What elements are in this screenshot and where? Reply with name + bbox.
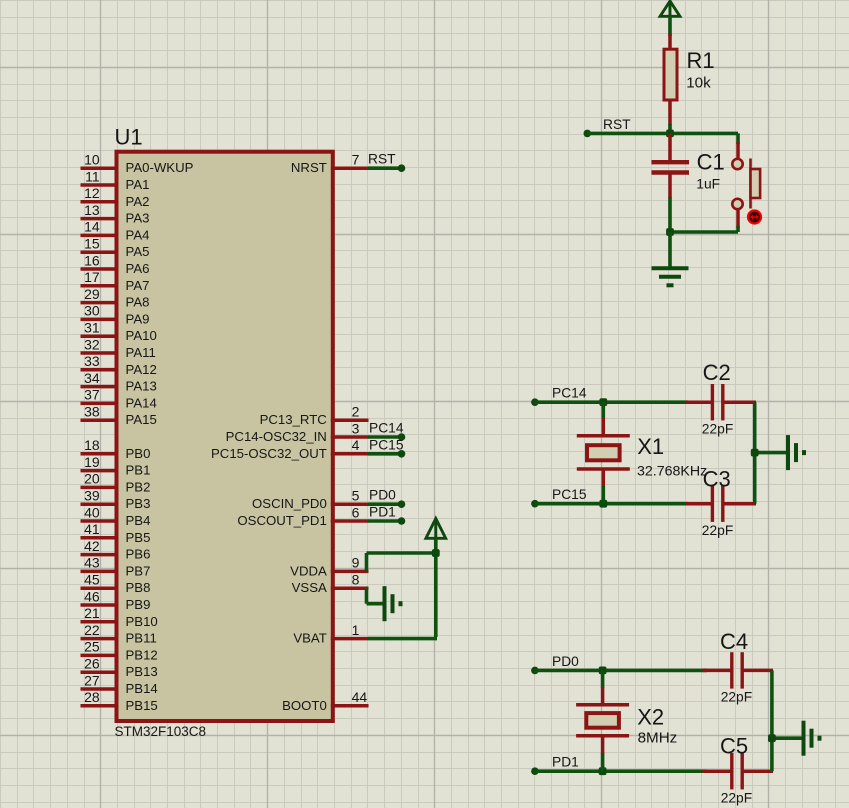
svg-text:PA0-WKUP: PA0-WKUP <box>126 160 194 175</box>
svg-text:PB14: PB14 <box>126 681 158 696</box>
svg-text:C1: C1 <box>697 149 725 174</box>
pin 19 (PB1) <box>81 454 151 478</box>
pin 1 (VBAT) <box>293 622 368 646</box>
pin 32 (PA11) <box>81 336 156 360</box>
svg-text:21: 21 <box>84 605 100 621</box>
svg-text:6: 6 <box>352 504 360 520</box>
wire PC15 horizontal <box>535 502 688 506</box>
svg-text:46: 46 <box>84 588 100 604</box>
svg-text:13: 13 <box>84 202 100 218</box>
svg-text:OSCOUT_PD1: OSCOUT_PD1 <box>237 513 326 528</box>
svg-text:PB1: PB1 <box>126 463 151 478</box>
wire R1 to RST net <box>668 124 672 133</box>
pin 40 (PB4) <box>81 504 151 528</box>
pin 44 (BOOT0) <box>282 689 368 713</box>
svg-text:PA11: PA11 <box>126 345 156 360</box>
svg-text:VDDA: VDDA <box>290 563 327 578</box>
pin 38 (PA15) <box>81 404 157 428</box>
capacitor C1 <box>652 133 690 198</box>
svg-text:PA4: PA4 <box>126 227 150 242</box>
svg-text:22pF: 22pF <box>721 791 752 806</box>
pin 2 (PC13_RTC) <box>260 404 369 428</box>
pin 6 (OSCOUT_PD1) <box>237 504 368 528</box>
svg-text:33: 33 <box>84 353 100 369</box>
svg-text:41: 41 <box>84 521 100 537</box>
pin 43 (PB7) <box>81 555 151 579</box>
svg-text:PC15: PC15 <box>369 437 404 452</box>
wire NRST pin to RST terminal <box>368 166 401 170</box>
svg-text:C5: C5 <box>720 734 748 759</box>
junction PD0/X2 <box>599 667 607 675</box>
power symbol VDD (top, above R1) <box>660 1 680 19</box>
svg-text:20: 20 <box>84 471 100 487</box>
crystal X1 <box>577 402 630 504</box>
svg-text:PB2: PB2 <box>126 479 151 494</box>
pin 41 (PB5) <box>81 521 151 545</box>
svg-text:PD1: PD1 <box>369 505 396 520</box>
node PD1 terminal at chip <box>398 517 406 525</box>
node PC15 terminal at chip <box>398 450 406 458</box>
svg-text:42: 42 <box>84 538 100 554</box>
svg-text:PA2: PA2 <box>126 194 150 209</box>
svg-text:15: 15 <box>84 236 100 252</box>
pin 37 (PA14) <box>81 387 157 411</box>
svg-text:R1: R1 <box>687 48 715 73</box>
svg-text:22pF: 22pF <box>702 523 733 538</box>
svg-text:U1: U1 <box>115 125 143 150</box>
svg-text:PC13_RTC: PC13_RTC <box>260 412 328 427</box>
svg-text:PD1: PD1 <box>552 755 579 770</box>
push button (reset) <box>732 142 760 228</box>
pin 31 (PA10) <box>81 320 157 344</box>
svg-text:PA15: PA15 <box>126 412 157 427</box>
node PC14 terminal at chip <box>398 433 406 441</box>
svg-text:34: 34 <box>84 370 100 386</box>
svg-text:1: 1 <box>352 622 360 638</box>
wire power node down <box>434 538 438 637</box>
svg-text:C3: C3 <box>703 466 731 491</box>
pin 4 (PC15-OSC32_OUT) <box>211 437 368 461</box>
wire PD1 pin to terminal <box>368 519 401 523</box>
terminal PC15 <box>531 500 539 508</box>
svg-text:C4: C4 <box>720 629 748 654</box>
pin 8 (VSSA) <box>292 572 369 596</box>
svg-text:39: 39 <box>84 488 100 504</box>
wire VSSA to ground <box>367 602 385 606</box>
wire to ground (X2) <box>772 736 803 740</box>
svg-text:VSSA: VSSA <box>292 580 327 595</box>
wire VBAT horizontal <box>368 637 437 641</box>
resistor R1 <box>664 34 677 125</box>
svg-text:NRST: NRST <box>291 160 327 175</box>
svg-text:PB5: PB5 <box>126 530 151 545</box>
svg-text:29: 29 <box>84 286 100 302</box>
pin 28 (PB15) <box>81 689 158 713</box>
svg-text:3: 3 <box>352 420 360 436</box>
svg-text:32: 32 <box>84 336 100 352</box>
pin 13 (PA3) <box>81 202 150 226</box>
svg-text:PB9: PB9 <box>126 597 151 612</box>
svg-text:PA6: PA6 <box>126 261 150 276</box>
wire to ground (X1) <box>755 451 788 455</box>
ground (VSSA) <box>385 586 401 621</box>
wire right vertical (C2-C3) <box>753 402 757 504</box>
svg-text:PA13: PA13 <box>126 379 157 394</box>
svg-text:PB15: PB15 <box>126 698 158 713</box>
svg-text:31: 31 <box>84 320 100 336</box>
pin 18 (PB0) <box>81 437 151 461</box>
svg-text:38: 38 <box>84 404 100 420</box>
svg-text:18: 18 <box>84 437 100 453</box>
terminal PD1 <box>531 767 539 775</box>
svg-text:8: 8 <box>352 572 360 588</box>
button red actuator dot <box>747 209 762 224</box>
pin 29 (PA8) <box>81 286 150 310</box>
svg-text:PB0: PB0 <box>126 446 151 461</box>
pin 15 (PA5) <box>81 236 150 260</box>
svg-text:10: 10 <box>84 152 100 168</box>
wire PD1 horizontal <box>535 769 707 773</box>
capacitor C4 <box>703 652 774 688</box>
svg-text:7: 7 <box>352 152 360 168</box>
svg-text:45: 45 <box>84 572 100 588</box>
pin 30 (PA9) <box>81 303 150 327</box>
pin 5 (OSCIN_PD0) <box>252 488 368 512</box>
pin 34 (PA13) <box>81 370 157 394</box>
svg-text:44: 44 <box>352 689 368 705</box>
ground (X2 circuit) <box>804 721 820 756</box>
svg-text:14: 14 <box>84 219 100 235</box>
svg-text:22: 22 <box>84 622 100 638</box>
wire RST horizontal <box>587 132 738 136</box>
pin 22 (PB11) <box>81 622 157 646</box>
wire down to ground <box>668 232 672 267</box>
svg-text:PB8: PB8 <box>126 580 151 595</box>
svg-text:PA5: PA5 <box>126 244 150 259</box>
junction PC15/X1 <box>599 500 607 508</box>
svg-text:10k: 10k <box>686 75 711 92</box>
svg-text:22pF: 22pF <box>702 422 733 437</box>
svg-text:43: 43 <box>84 555 100 571</box>
wire PC14 horizontal <box>535 400 688 404</box>
svg-text:PA14: PA14 <box>126 395 157 410</box>
svg-text:X1: X1 <box>637 434 664 459</box>
svg-text:9: 9 <box>352 555 360 571</box>
svg-text:C2: C2 <box>703 360 731 385</box>
pin 9 (VDDA) <box>290 555 368 579</box>
svg-text:PC14: PC14 <box>552 386 587 401</box>
svg-text:PC15: PC15 <box>552 487 587 502</box>
wire PC15 pin to terminal <box>368 452 401 456</box>
wire button down <box>736 226 740 232</box>
pin 33 (PA12) <box>81 353 157 377</box>
svg-text:PB11: PB11 <box>126 631 157 646</box>
pin 25 (PB12) <box>81 639 158 663</box>
wire bottom horizontal (button to C1 gnd) <box>670 230 738 234</box>
svg-text:PB3: PB3 <box>126 496 151 511</box>
svg-text:PB7: PB7 <box>126 563 151 578</box>
svg-text:2: 2 <box>352 404 360 420</box>
capacitor C3 <box>686 486 756 522</box>
wire VDDA up <box>365 553 369 571</box>
wire PD0 pin to terminal <box>368 502 401 506</box>
svg-text:PC14-OSC32_IN: PC14-OSC32_IN <box>226 429 327 444</box>
svg-text:PB6: PB6 <box>126 547 151 562</box>
pin 16 (PA6) <box>81 252 150 276</box>
svg-text:19: 19 <box>84 454 100 470</box>
pin 39 (PB3) <box>81 488 151 512</box>
power symbol VDD (near VDDA) <box>426 519 446 542</box>
svg-text:BOOT0: BOOT0 <box>282 698 327 713</box>
svg-text:PC15-OSC32_OUT: PC15-OSC32_OUT <box>211 446 327 461</box>
crystal X2 <box>576 670 629 771</box>
svg-text:PA12: PA12 <box>126 362 157 377</box>
node RST terminal at chip <box>398 164 406 172</box>
pin 11 (PA1) <box>81 168 150 192</box>
svg-text:27: 27 <box>84 672 100 688</box>
junction power node <box>432 549 440 557</box>
svg-text:OSCIN_PD0: OSCIN_PD0 <box>252 496 327 511</box>
svg-text:16: 16 <box>84 252 100 268</box>
svg-text:22pF: 22pF <box>721 689 752 704</box>
svg-text:PD0: PD0 <box>552 654 579 669</box>
pin 42 (PB6) <box>81 538 151 562</box>
svg-text:1uF: 1uF <box>696 176 720 191</box>
svg-text:PA7: PA7 <box>126 278 150 293</box>
junction gnd (X2) <box>768 734 776 742</box>
svg-text:PB12: PB12 <box>126 647 158 662</box>
svg-text:RST: RST <box>368 152 396 167</box>
capacitor C2 <box>686 384 756 420</box>
svg-text:PA1: PA1 <box>126 177 150 192</box>
ground (X1 circuit) <box>788 435 804 470</box>
svg-text:VBAT: VBAT <box>293 631 326 646</box>
svg-text:32.768KHz: 32.768KHz <box>637 464 707 480</box>
svg-text:30: 30 <box>84 303 100 319</box>
svg-text:X2: X2 <box>637 705 664 730</box>
terminal PD0 <box>531 667 539 675</box>
svg-text:11: 11 <box>85 168 100 184</box>
svg-text:12: 12 <box>84 185 100 201</box>
svg-text:26: 26 <box>84 656 100 672</box>
pin 27 (PB14) <box>81 672 158 696</box>
svg-text:PB13: PB13 <box>126 664 158 679</box>
pin 45 (PB8) <box>81 572 151 596</box>
ground (reset circuit) <box>652 268 689 285</box>
pin 17 (PA7) <box>81 269 150 293</box>
svg-text:37: 37 <box>84 387 100 403</box>
svg-text:PA8: PA8 <box>126 295 150 310</box>
svg-text:PA3: PA3 <box>126 211 150 226</box>
wire right vertical (C4-C5) <box>770 670 774 771</box>
capacitor C5 <box>703 753 774 789</box>
wire RST corner down to button <box>736 133 740 144</box>
node PD0 terminal at chip <box>398 500 406 508</box>
wire PC14 pin to terminal <box>368 435 401 439</box>
pin 20 (PB2) <box>81 471 151 495</box>
svg-text:28: 28 <box>84 689 100 705</box>
svg-text:5: 5 <box>352 488 360 504</box>
pin 21 (PB10) <box>81 605 158 629</box>
svg-text:8MHz: 8MHz <box>638 729 678 746</box>
svg-text:PB4: PB4 <box>126 513 151 528</box>
junction PC14/X1 <box>599 398 607 406</box>
pin 7 (NRST) <box>291 152 369 176</box>
svg-text:17: 17 <box>84 269 100 285</box>
pin 10 (PA0-WKUP) <box>81 152 194 176</box>
svg-text:PA9: PA9 <box>126 311 150 326</box>
pin 3 (PC14-OSC32_IN) <box>226 420 369 444</box>
wire C1 to ground node <box>668 197 672 232</box>
junction gnd (X1) <box>751 449 759 457</box>
svg-text:STM32F103C8: STM32F103C8 <box>115 724 207 739</box>
wire VSSA down <box>365 588 369 604</box>
wire power to R1 <box>668 17 672 37</box>
terminal RST (left) <box>584 130 592 138</box>
wire PD0 horizontal <box>535 669 707 673</box>
wire VDDA horizontal to power node <box>367 551 438 555</box>
pin 12 (PA2) <box>81 185 150 209</box>
svg-text:25: 25 <box>84 639 100 655</box>
svg-text:PD0: PD0 <box>369 488 396 503</box>
junction PD1/X2 <box>599 767 607 775</box>
svg-text:PA10: PA10 <box>126 328 157 343</box>
svg-text:40: 40 <box>84 504 100 520</box>
pin 26 (PB13) <box>81 656 158 680</box>
pin 46 (PB9) <box>81 588 151 612</box>
junction C1/gnd <box>666 228 674 236</box>
pin 14 (PA4) <box>81 219 150 243</box>
svg-text:PC14: PC14 <box>369 421 404 436</box>
svg-text:PB10: PB10 <box>126 614 158 629</box>
junction RST/R1/C1 <box>666 130 674 138</box>
microcontroller U1 (STM32F103C8) body <box>117 152 333 721</box>
terminal PC14 <box>531 398 539 406</box>
svg-text:4: 4 <box>352 437 360 453</box>
svg-text:RST: RST <box>603 117 631 132</box>
